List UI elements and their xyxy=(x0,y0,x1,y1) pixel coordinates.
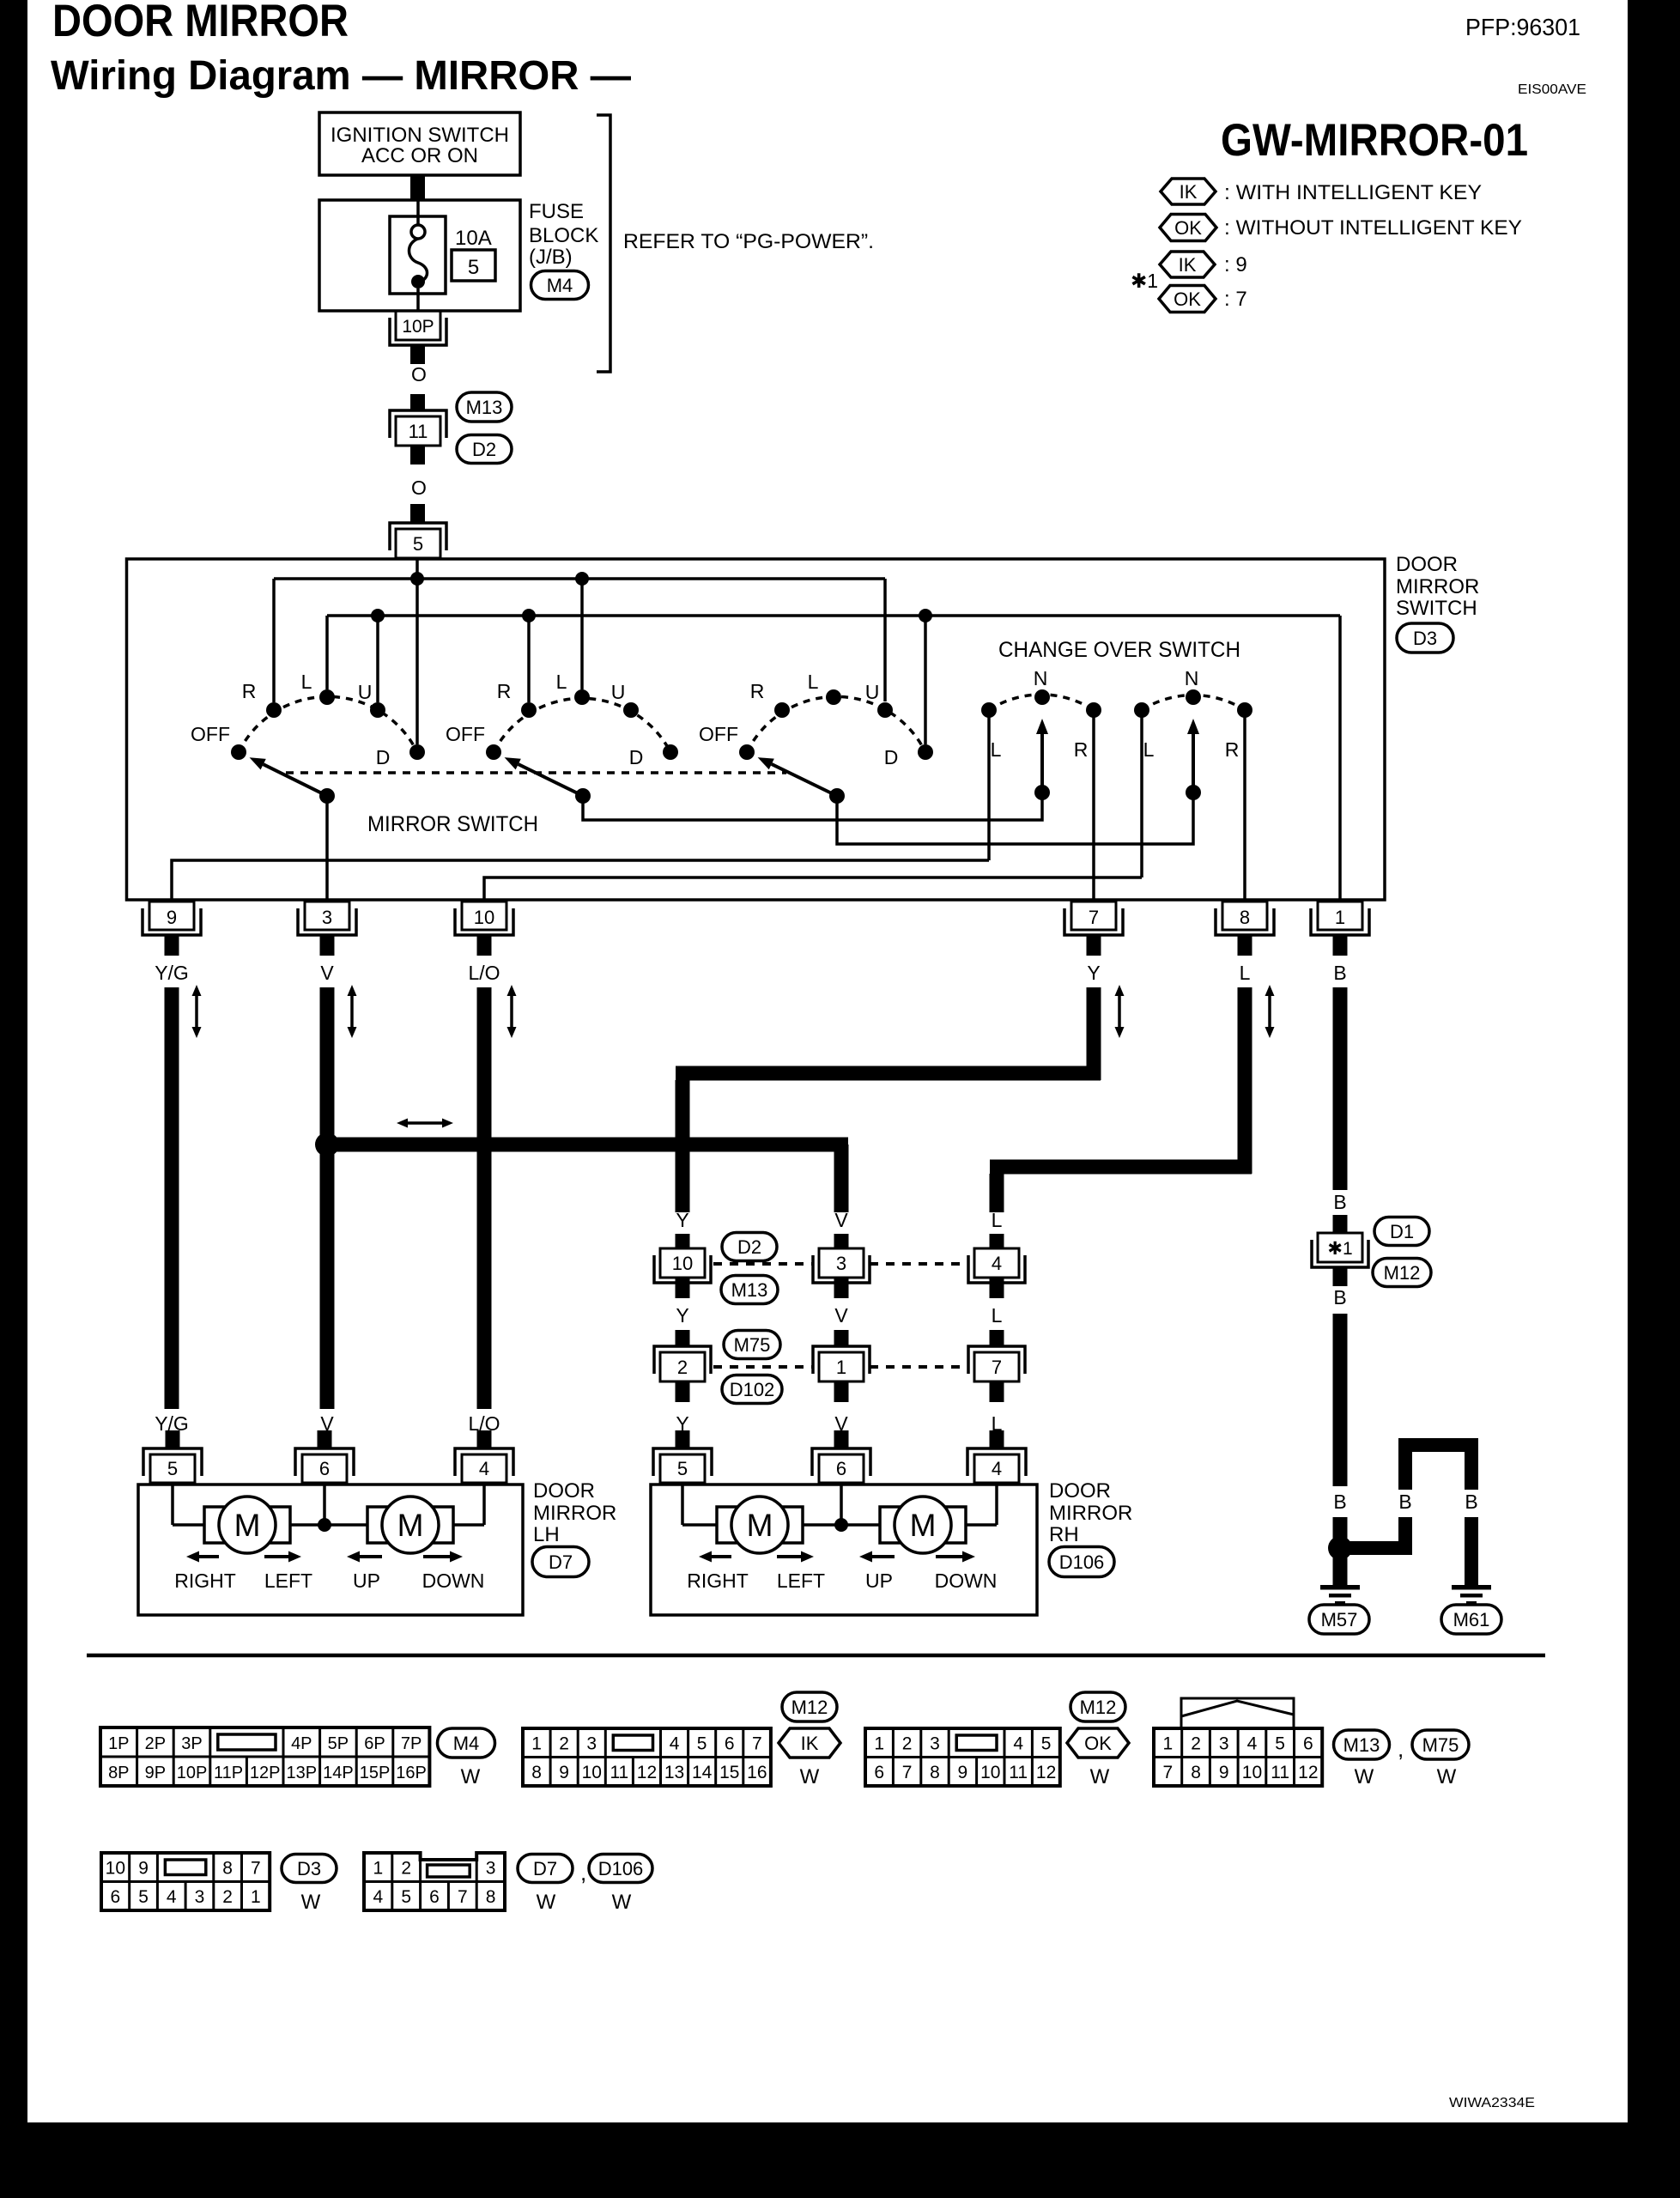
wire Y switch to elbow xyxy=(1087,987,1101,1080)
wire stub below connector 3 xyxy=(834,1278,849,1298)
wire L elbow xyxy=(990,1160,1252,1175)
wire right leg to ground M61 xyxy=(1465,1517,1478,1585)
connector grid OK xyxy=(865,1728,1060,1786)
svg-text:W: W xyxy=(1355,1765,1374,1788)
junction V branch xyxy=(315,1132,339,1157)
svg-text:: 7: : 7 xyxy=(1224,288,1247,311)
svg-text:(J/B): (J/B) xyxy=(529,246,573,269)
wire stub below connector 10 xyxy=(676,1278,690,1298)
svg-text:L: L xyxy=(1240,962,1251,984)
svg-text:7: 7 xyxy=(1089,907,1099,928)
door mirror RH motor arrows xyxy=(712,1555,731,1558)
connector ref D7 bottom xyxy=(518,1855,573,1883)
wire stub above connector 7b xyxy=(990,1330,1004,1346)
svg-text:W: W xyxy=(1090,1765,1110,1788)
svg-text:4: 4 xyxy=(167,1887,177,1907)
connector ref D2 mid xyxy=(722,1233,777,1261)
svg-text:M: M xyxy=(234,1508,261,1543)
svg-text:: WITHOUT INTELLIGENT KEY: : WITHOUT INTELLIGENT KEY xyxy=(1224,216,1522,240)
wire into fuse xyxy=(416,201,420,225)
wire B upper xyxy=(1333,987,1348,1190)
svg-text:D1: D1 xyxy=(1390,1221,1414,1242)
svg-text:RH: RH xyxy=(1049,1523,1079,1546)
svg-text:IK: IK xyxy=(1180,181,1198,203)
svg-text:IK: IK xyxy=(1179,254,1197,276)
pin 8 xyxy=(1222,902,1267,930)
svg-text:D: D xyxy=(376,746,391,768)
svg-text:V: V xyxy=(320,962,334,984)
svg-text:7: 7 xyxy=(992,1357,1002,1378)
svg-text:ACC OR ON: ACC OR ON xyxy=(361,144,478,167)
door mirror LH motor wiring and motors xyxy=(171,1485,174,1525)
connector 10 D2/M13 xyxy=(660,1248,705,1278)
svg-text:10: 10 xyxy=(672,1253,693,1274)
svg-text:M4: M4 xyxy=(453,1733,480,1754)
svg-text:9: 9 xyxy=(1219,1763,1229,1782)
ignition switch box xyxy=(319,112,520,175)
wire pivot3 to changeover pivot 2 xyxy=(837,798,1193,844)
svg-text:8P: 8P xyxy=(108,1764,129,1782)
wire bus1 to contact L2 xyxy=(580,579,584,689)
svg-text:2P: 2P xyxy=(145,1734,166,1753)
wire stub above connector *1 xyxy=(1333,1215,1348,1233)
wire stub above connector 2 xyxy=(676,1330,690,1346)
svg-text:4: 4 xyxy=(992,1458,1002,1479)
door mirror switch box xyxy=(127,559,1386,900)
connector 11 M13/D2 xyxy=(390,410,446,438)
svg-text:11: 11 xyxy=(1009,1763,1028,1782)
connector ref M13 bottom xyxy=(1334,1730,1390,1759)
svg-text:4: 4 xyxy=(1247,1734,1258,1754)
svg-text:Y: Y xyxy=(1087,962,1100,984)
wire V down to connector 3 xyxy=(834,1145,849,1212)
wire from connector 5 to contact D1 xyxy=(415,560,419,744)
svg-text:2: 2 xyxy=(401,1859,411,1879)
svg-text:BLOCK: BLOCK xyxy=(529,224,598,247)
wire contact RA to pin 7 xyxy=(1092,717,1095,900)
svg-text:6: 6 xyxy=(111,1887,121,1907)
svg-text:D3: D3 xyxy=(297,1858,321,1879)
arrow V xyxy=(350,996,354,1011)
wire L switch to elbow xyxy=(1238,987,1252,1174)
connector ref D106 xyxy=(1049,1547,1114,1577)
svg-text:D2: D2 xyxy=(737,1236,761,1258)
svg-text:W: W xyxy=(612,1891,632,1914)
wire contact LB to bus 10 xyxy=(1140,717,1143,877)
wire bus2 to contact R2 xyxy=(527,616,531,702)
svg-text:M75: M75 xyxy=(734,1334,771,1356)
connector 5 xyxy=(390,523,446,550)
svg-text:9: 9 xyxy=(958,1763,968,1782)
svg-text:1P: 1P xyxy=(108,1734,129,1753)
door mirror RH box xyxy=(651,1485,1037,1615)
connector ref D3 xyxy=(1397,623,1453,653)
svg-text:3: 3 xyxy=(1219,1734,1229,1754)
connector 1 M75/D102 xyxy=(813,1346,870,1374)
svg-text:7: 7 xyxy=(902,1763,913,1782)
svg-text:7P: 7P xyxy=(401,1734,422,1753)
wire mid leg to junction xyxy=(1398,1517,1412,1555)
svg-text:M: M xyxy=(910,1508,937,1543)
svg-text:2: 2 xyxy=(559,1734,569,1754)
svg-text:5: 5 xyxy=(677,1458,688,1479)
svg-text:W: W xyxy=(301,1891,321,1914)
svg-text:RIGHT: RIGHT xyxy=(687,1570,749,1592)
svg-text:13: 13 xyxy=(664,1763,684,1782)
svg-text:W: W xyxy=(1437,1765,1457,1788)
svg-text:1: 1 xyxy=(1163,1734,1174,1754)
svg-text:UP: UP xyxy=(353,1570,380,1592)
svg-text:PFP:96301: PFP:96301 xyxy=(1465,14,1580,40)
svg-text:12: 12 xyxy=(1298,1763,1318,1782)
svg-text:10P: 10P xyxy=(177,1764,208,1782)
svg-text:4: 4 xyxy=(373,1887,384,1907)
svg-text:WIWA2334E: WIWA2334E xyxy=(1449,2096,1535,2110)
svg-text:M13: M13 xyxy=(731,1279,768,1301)
svg-text:D106: D106 xyxy=(1059,1551,1105,1573)
wire above connector 5 xyxy=(410,504,425,523)
svg-text:1: 1 xyxy=(1335,907,1345,928)
svg-text:2: 2 xyxy=(222,1887,233,1907)
svg-text:DOWN: DOWN xyxy=(422,1570,485,1592)
svg-text:9P: 9P xyxy=(145,1764,166,1782)
connector grid D3 xyxy=(101,1853,270,1910)
wire V xyxy=(320,987,335,1409)
separator line xyxy=(87,1654,1545,1658)
svg-text:DOWN: DOWN xyxy=(935,1570,998,1592)
svg-text:10A: 10A xyxy=(455,227,492,250)
svg-text:3P: 3P xyxy=(181,1734,202,1753)
svg-text:1: 1 xyxy=(251,1887,261,1907)
wire contact RB to pin 8 xyxy=(1243,717,1246,900)
svg-text:7: 7 xyxy=(251,1859,261,1879)
pin 6 RH xyxy=(819,1454,864,1483)
svg-text:LEFT: LEFT xyxy=(264,1570,312,1592)
connector ref D102 xyxy=(722,1375,782,1404)
svg-text:10: 10 xyxy=(980,1763,1000,1782)
connector 7 M75/D102 xyxy=(968,1346,1025,1374)
svg-text:B: B xyxy=(1465,1491,1477,1513)
svg-text:12: 12 xyxy=(1036,1763,1056,1782)
svg-text:OFF: OFF xyxy=(191,723,230,745)
svg-text:IGNITION SWITCH: IGNITION SWITCH xyxy=(331,124,509,147)
svg-text:3: 3 xyxy=(486,1859,496,1879)
wire bus1 to contact U3 xyxy=(883,579,887,701)
svg-text:V: V xyxy=(834,1209,848,1231)
wire B lower xyxy=(1333,1314,1348,1486)
svg-text:D102: D102 xyxy=(730,1379,775,1400)
svg-text:MIRROR SWITCH: MIRROR SWITCH xyxy=(367,812,538,836)
svg-text:D106: D106 xyxy=(598,1858,644,1879)
svg-text:9: 9 xyxy=(167,907,177,928)
fuse number 5 box xyxy=(452,250,495,281)
connector 3 D2/M13 xyxy=(819,1248,864,1278)
svg-text:R: R xyxy=(1225,738,1240,761)
svg-text:5: 5 xyxy=(413,533,423,555)
svg-text:6P: 6P xyxy=(364,1734,385,1753)
linkage dashed line xyxy=(286,771,786,774)
svg-text:✱1: ✱1 xyxy=(1131,270,1158,292)
connector *1 D1/M12 xyxy=(1318,1233,1362,1262)
connector ref D106 bottom xyxy=(589,1855,652,1883)
svg-text:Wiring Diagram — MIRROR —: Wiring Diagram — MIRROR — xyxy=(51,53,631,99)
junction bus1/conn5 xyxy=(410,572,424,586)
svg-text:9: 9 xyxy=(138,1859,149,1879)
wire stub below connector 2 xyxy=(676,1381,690,1402)
door mirror LH box xyxy=(138,1485,523,1615)
svg-text:D7: D7 xyxy=(549,1551,573,1573)
svg-text:11: 11 xyxy=(610,1763,628,1782)
svg-text:D2: D2 xyxy=(472,439,496,460)
svg-text:15P: 15P xyxy=(360,1764,391,1782)
junction bus2/U1 xyxy=(371,609,385,622)
arrow Y/G xyxy=(195,996,198,1011)
svg-text:OK: OK xyxy=(1084,1733,1112,1754)
junction bus2/D3 xyxy=(919,609,932,622)
svg-text:R: R xyxy=(1074,738,1089,761)
svg-text:12P: 12P xyxy=(250,1764,281,1782)
wire stub below connector 1 xyxy=(834,1381,849,1402)
bus to pin 10 xyxy=(484,877,1142,900)
svg-text:R: R xyxy=(242,680,257,702)
svg-text:M: M xyxy=(397,1508,424,1543)
wire stub below connector 7b xyxy=(990,1381,1004,1402)
svg-text:5: 5 xyxy=(468,256,479,279)
svg-text:4: 4 xyxy=(479,1458,489,1479)
pin 10 xyxy=(462,902,506,930)
wire pivot2 to changeover pivot 1 xyxy=(583,798,1042,820)
svg-text:2: 2 xyxy=(902,1734,913,1754)
svg-text:DOOR: DOOR xyxy=(1396,553,1458,576)
svg-text:SWITCH: SWITCH xyxy=(1396,597,1477,620)
fuse 10A symbol xyxy=(411,225,425,239)
legend OK = 7 symbol xyxy=(1159,286,1216,313)
wire stub above connector 4 xyxy=(990,1234,1004,1248)
connector grid M4 xyxy=(100,1727,429,1786)
mirror switch contact set 2 xyxy=(494,698,670,752)
door mirror LH motor arrows xyxy=(199,1555,219,1558)
svg-text:7: 7 xyxy=(1163,1763,1174,1782)
svg-text:M61: M61 xyxy=(1453,1609,1490,1630)
svg-text:15: 15 xyxy=(719,1763,739,1782)
legend IK = 9 symbol xyxy=(1160,252,1215,277)
fuse F5 box xyxy=(390,216,446,294)
fuse block J/B box M4 xyxy=(319,200,520,311)
svg-text:L: L xyxy=(992,1209,1003,1231)
wire bus2 to contact U1 xyxy=(376,616,379,702)
svg-text:8: 8 xyxy=(1191,1763,1201,1782)
svg-text:5: 5 xyxy=(401,1887,411,1907)
pin 6 LH xyxy=(302,1454,347,1483)
pin 7 xyxy=(1071,902,1116,930)
ground symbol M61 xyxy=(1452,1585,1491,1590)
svg-text:D7: D7 xyxy=(533,1858,557,1879)
ground loop top xyxy=(1405,1444,1471,1446)
svg-text:FUSE: FUSE xyxy=(529,200,584,223)
svg-text:3: 3 xyxy=(322,907,332,928)
svg-text:L: L xyxy=(992,1304,1003,1327)
pin 4 RH xyxy=(974,1454,1019,1483)
svg-text:8: 8 xyxy=(222,1859,233,1879)
svg-text:5: 5 xyxy=(167,1458,178,1479)
connector ref M75 xyxy=(724,1331,780,1359)
svg-text:CHANGE OVER SWITCH: CHANGE OVER SWITCH xyxy=(998,638,1240,662)
svg-text:M4: M4 xyxy=(547,275,573,296)
ground ref M61 xyxy=(1441,1605,1501,1634)
svg-text:L: L xyxy=(301,671,312,693)
svg-text:R: R xyxy=(497,680,512,702)
svg-text:13P: 13P xyxy=(287,1764,318,1782)
svg-text:B: B xyxy=(1333,1191,1346,1213)
svg-text:U: U xyxy=(611,681,626,703)
svg-text:M13: M13 xyxy=(1343,1734,1380,1756)
change over switch contact set 2 xyxy=(1142,695,1245,710)
svg-text:3: 3 xyxy=(586,1734,597,1754)
svg-text:7: 7 xyxy=(752,1734,762,1754)
svg-text:7: 7 xyxy=(458,1887,468,1907)
bracket refer to PG-POWER xyxy=(597,115,610,372)
pin 5 LH xyxy=(150,1454,195,1483)
bus to pin 9 xyxy=(172,860,989,900)
svg-text:,: , xyxy=(580,1860,586,1885)
svg-text:2: 2 xyxy=(1191,1734,1201,1754)
wire stub above connector 3 xyxy=(834,1234,849,1248)
svg-text:DOOR: DOOR xyxy=(1049,1479,1111,1503)
svg-text:L: L xyxy=(1143,738,1155,761)
svg-text:1: 1 xyxy=(531,1734,542,1754)
svg-text:9: 9 xyxy=(559,1763,569,1782)
svg-text:Y/G: Y/G xyxy=(155,962,189,984)
svg-text:M12: M12 xyxy=(1080,1697,1117,1718)
svg-text:M13: M13 xyxy=(466,397,503,418)
svg-text:M57: M57 xyxy=(1321,1609,1358,1630)
wire bus1 to contact R1 xyxy=(272,579,276,702)
wire below connector 11 xyxy=(410,446,425,464)
svg-text:M12: M12 xyxy=(1384,1262,1421,1284)
svg-text:MIRROR: MIRROR xyxy=(533,1502,616,1525)
svg-text:6: 6 xyxy=(874,1763,884,1782)
svg-text:W: W xyxy=(800,1765,820,1788)
junction bus1/L2 xyxy=(575,572,589,586)
svg-text:D3: D3 xyxy=(1413,628,1437,649)
connector grid M13/M75 xyxy=(1154,1728,1322,1786)
dashed link 3-4 xyxy=(870,1262,968,1266)
svg-text:DOOR MIRROR: DOOR MIRROR xyxy=(52,0,349,46)
connector ref M12 near *1 xyxy=(1373,1259,1431,1287)
svg-text:W: W xyxy=(461,1765,481,1788)
svg-text:14P: 14P xyxy=(323,1764,354,1782)
wire above connector 11 xyxy=(410,394,425,410)
junction bus2/R2 xyxy=(522,609,536,622)
svg-text:6: 6 xyxy=(1303,1734,1313,1754)
svg-text:REFER TO “PG-POWER”.: REFER TO “PG-POWER”. xyxy=(623,230,874,253)
arrow L xyxy=(1268,996,1271,1011)
pin 5 RH xyxy=(660,1454,705,1483)
connector key IK xyxy=(779,1728,840,1758)
wire Y down to connector 10 xyxy=(676,1080,690,1212)
connector grid D7/D106 xyxy=(364,1853,505,1910)
svg-text:10: 10 xyxy=(582,1763,602,1782)
svg-text:14: 14 xyxy=(692,1763,713,1782)
svg-text:1: 1 xyxy=(836,1357,846,1378)
svg-text:5P: 5P xyxy=(328,1734,349,1753)
svg-text:OK: OK xyxy=(1174,217,1202,239)
svg-text:6: 6 xyxy=(429,1887,440,1907)
svg-text:11: 11 xyxy=(409,421,428,442)
connector ref M13 top xyxy=(457,392,512,422)
connector ref D7 xyxy=(532,1547,589,1577)
svg-text:: WITH INTELLIGENT KEY: : WITH INTELLIGENT KEY xyxy=(1224,181,1482,204)
wire V branch horizontal xyxy=(327,1138,848,1152)
svg-text:UP: UP xyxy=(865,1570,893,1592)
svg-text:O: O xyxy=(411,477,427,499)
wire B to ground junction xyxy=(1333,1517,1348,1585)
svg-text:D: D xyxy=(629,746,644,768)
svg-text:4P: 4P xyxy=(291,1734,312,1753)
svg-text:8: 8 xyxy=(531,1763,542,1782)
wire stub below connector 4 xyxy=(990,1278,1004,1298)
svg-text:5: 5 xyxy=(138,1887,149,1907)
connector ref M4 bottom xyxy=(438,1728,495,1758)
svg-text:U: U xyxy=(358,681,373,703)
svg-text:8: 8 xyxy=(486,1887,496,1907)
wire stub below connector *1 xyxy=(1333,1267,1348,1286)
pin 4 LH xyxy=(462,1454,506,1483)
svg-text:6: 6 xyxy=(319,1458,330,1479)
svg-text:DOOR: DOOR xyxy=(533,1479,595,1503)
svg-text:16: 16 xyxy=(747,1763,767,1782)
connector 10P xyxy=(396,311,440,340)
svg-text:5: 5 xyxy=(1275,1734,1285,1754)
svg-text:GW-MIRROR-01: GW-MIRROR-01 xyxy=(1221,115,1528,166)
svg-text:10: 10 xyxy=(1242,1763,1262,1782)
svg-text:8: 8 xyxy=(930,1763,940,1782)
connector 4 D2/M13 xyxy=(974,1248,1019,1278)
ground symbol M57 xyxy=(1320,1585,1360,1590)
pin 3 xyxy=(305,902,349,930)
connector ref M12 over OK xyxy=(1070,1692,1125,1721)
wire bus2 to contact D3 xyxy=(924,616,927,744)
svg-text:2: 2 xyxy=(677,1357,688,1378)
svg-text:16P: 16P xyxy=(396,1764,427,1782)
svg-text:B: B xyxy=(1333,1491,1346,1513)
svg-text:U: U xyxy=(865,681,880,703)
svg-text:MIRROR: MIRROR xyxy=(1396,575,1479,598)
mirror switch contact set 3 xyxy=(747,696,925,752)
svg-text:LEFT: LEFT xyxy=(777,1570,825,1592)
svg-text:4: 4 xyxy=(670,1734,680,1754)
svg-text:V: V xyxy=(834,1304,848,1327)
wire Y elbow xyxy=(676,1066,1101,1081)
svg-text:: 9: : 9 xyxy=(1224,253,1247,276)
svg-text:1: 1 xyxy=(874,1734,884,1754)
pin 1 xyxy=(1318,902,1362,930)
dashed link 10-3 xyxy=(713,1262,813,1266)
connector ref D2 top xyxy=(457,435,512,464)
door mirror RH motor wiring and motors xyxy=(681,1485,684,1525)
svg-text:B: B xyxy=(1398,1491,1411,1513)
svg-text:8: 8 xyxy=(1240,907,1250,928)
svg-text:OFF: OFF xyxy=(446,723,485,745)
connector ref M4 xyxy=(531,271,589,300)
svg-text:✱1: ✱1 xyxy=(1327,1239,1352,1259)
wire L down to connector 4 xyxy=(990,1174,1004,1212)
connector keying M13/M75 xyxy=(1181,1698,1294,1727)
wire L/O xyxy=(477,987,492,1409)
svg-text:M75: M75 xyxy=(1422,1734,1459,1756)
wire stub above connector 1 xyxy=(834,1330,849,1346)
mirror switch contact set 1 xyxy=(239,696,417,752)
